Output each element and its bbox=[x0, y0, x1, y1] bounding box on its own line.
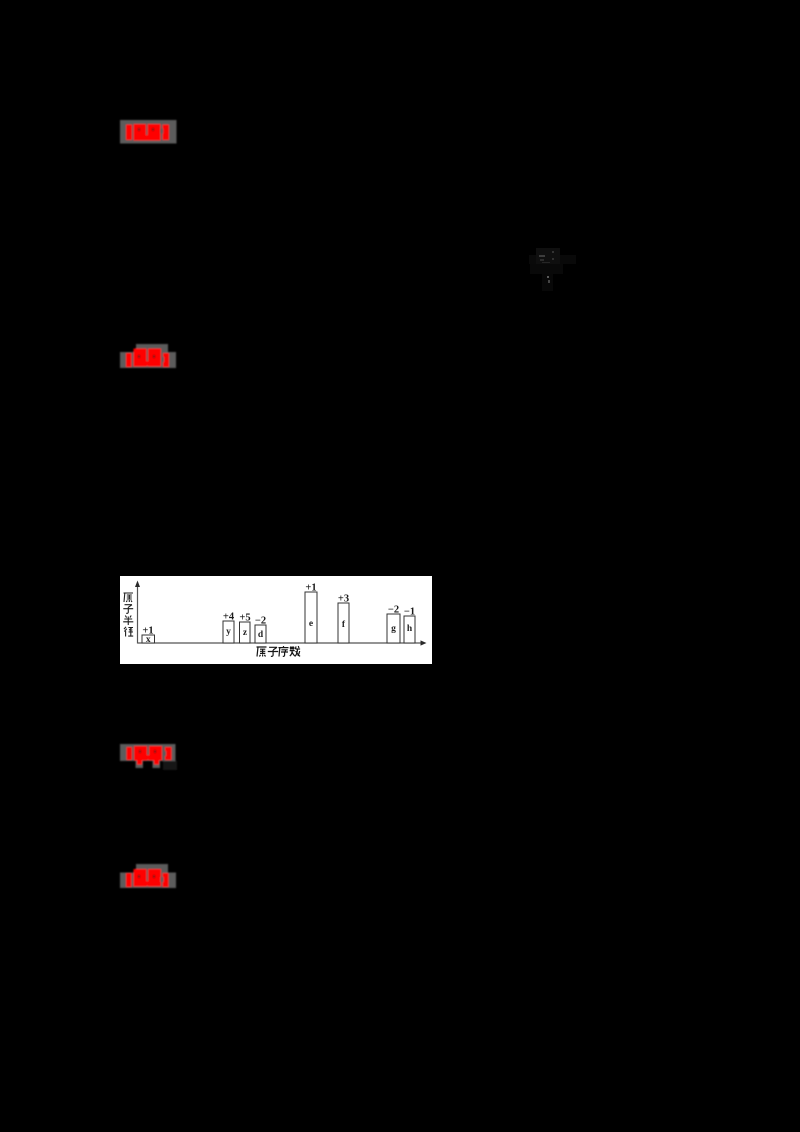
answer highlight box 3 : red 【答案】 with descender shading tabs bbox=[116, 738, 186, 776]
answer highlight box 1 : red 【答案】 on gray shading bbox=[116, 116, 182, 150]
x-axis label 原子序数 (simulated glyphs) bbox=[257, 646, 301, 657]
svg-text:+5: +5 bbox=[239, 613, 250, 624]
faint dark inline image (structure picture), upper part bbox=[536, 248, 560, 264]
子 bbox=[123, 605, 133, 614]
svg-text:g: g bbox=[391, 624, 396, 634]
svg-text:d: d bbox=[258, 630, 264, 640]
svg-text:e: e bbox=[309, 619, 313, 629]
charge labels bbox=[142, 583, 415, 637]
半 bbox=[123, 616, 133, 626]
svg-text:+3: +3 bbox=[338, 594, 349, 605]
svg-text:−1: −1 bbox=[404, 607, 415, 618]
数 bbox=[290, 646, 300, 656]
x axis bbox=[138, 642, 424, 644]
chart image: atomic radius vs atomic number bar chart bbox=[120, 576, 432, 664]
svg-text:y: y bbox=[226, 627, 231, 637]
y axis arrow bbox=[135, 581, 140, 588]
svg-text:x: x bbox=[146, 635, 151, 645]
answer highlight box 2 : red 【解析】 with raised shading tab bbox=[116, 340, 182, 374]
svg-text:−2: −2 bbox=[388, 605, 399, 616]
序 bbox=[279, 646, 289, 657]
svg-text:+1: +1 bbox=[305, 583, 316, 594]
径 bbox=[124, 627, 133, 637]
原 bbox=[257, 647, 267, 657]
svg-text:+4: +4 bbox=[223, 612, 235, 623]
y axis bbox=[137, 583, 139, 644]
answer highlight box 4 : red 【解析】 with raised shading tab bbox=[116, 860, 182, 894]
svg-text:h: h bbox=[407, 624, 413, 634]
原 bbox=[124, 593, 134, 602]
子 bbox=[268, 647, 278, 656]
x axis arrow bbox=[421, 640, 427, 645]
faint dark inline image, lower column bbox=[542, 274, 553, 291]
faint image details: light dashes bbox=[539, 255, 545, 257]
bar letters bbox=[146, 619, 413, 645]
svg-text:−2: −2 bbox=[255, 616, 266, 627]
bars bbox=[142, 592, 415, 643]
y-axis label 原子半径 (simulated glyphs) bbox=[123, 593, 133, 637]
